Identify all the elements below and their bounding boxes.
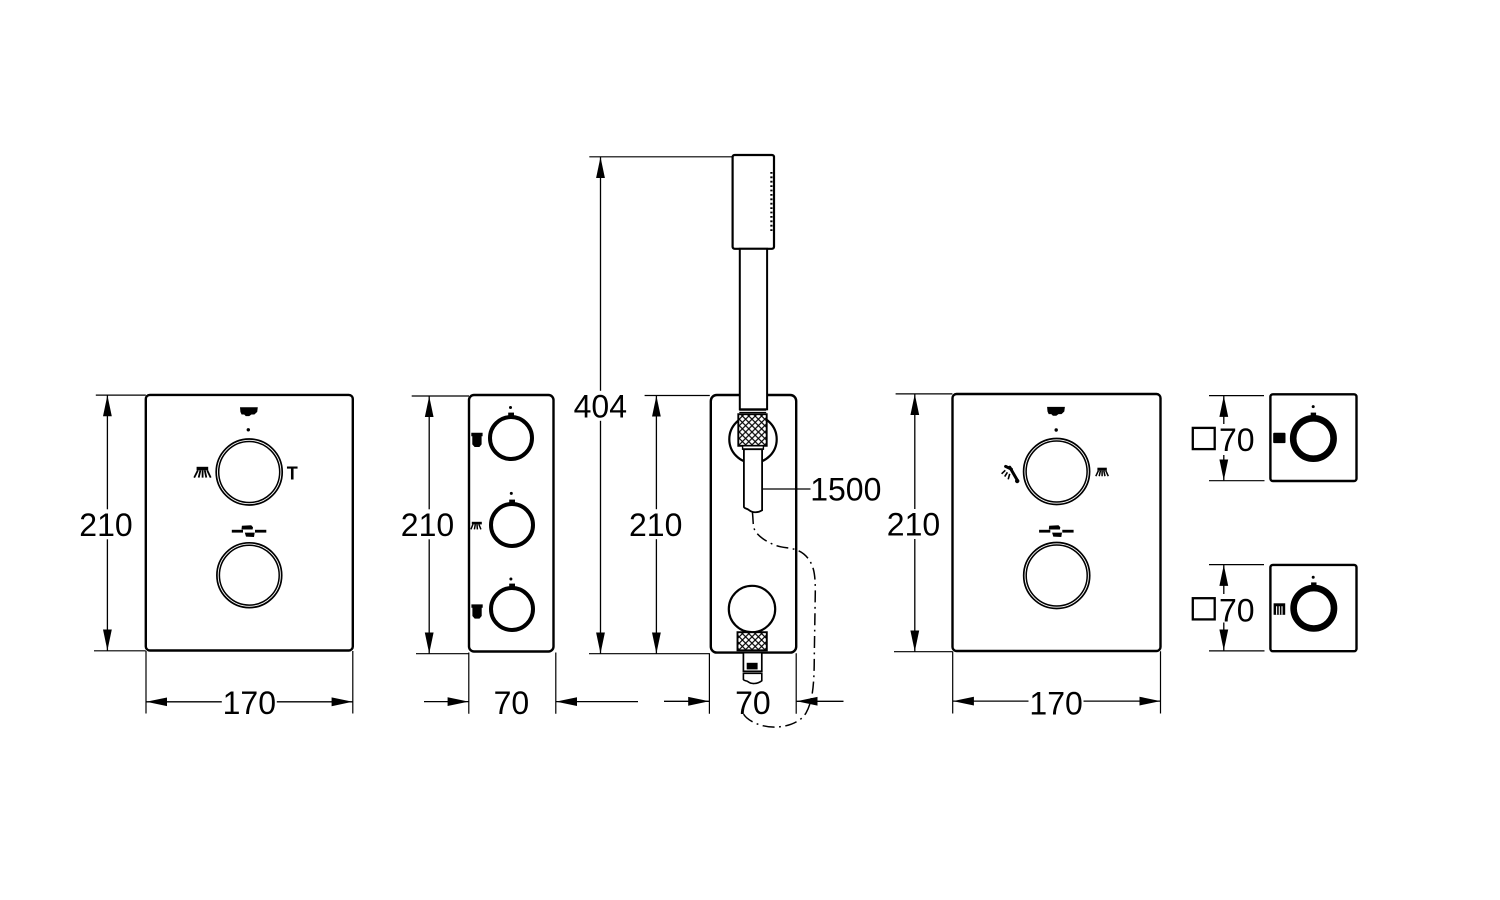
svg-text:210: 210 bbox=[401, 507, 454, 543]
svg-text:70: 70 bbox=[494, 685, 530, 721]
svg-text:1500: 1500 bbox=[810, 471, 881, 507]
svg-text:210: 210 bbox=[629, 507, 682, 543]
svg-text:404: 404 bbox=[574, 389, 627, 425]
svg-text:170: 170 bbox=[1029, 685, 1082, 721]
svg-text:210: 210 bbox=[887, 507, 940, 543]
svg-text:T: T bbox=[287, 463, 298, 483]
svg-text:170: 170 bbox=[223, 685, 276, 721]
svg-text:70: 70 bbox=[735, 685, 771, 721]
svg-text:210: 210 bbox=[79, 507, 132, 543]
svg-text:70: 70 bbox=[1219, 592, 1255, 628]
svg-text:70: 70 bbox=[1219, 422, 1255, 458]
